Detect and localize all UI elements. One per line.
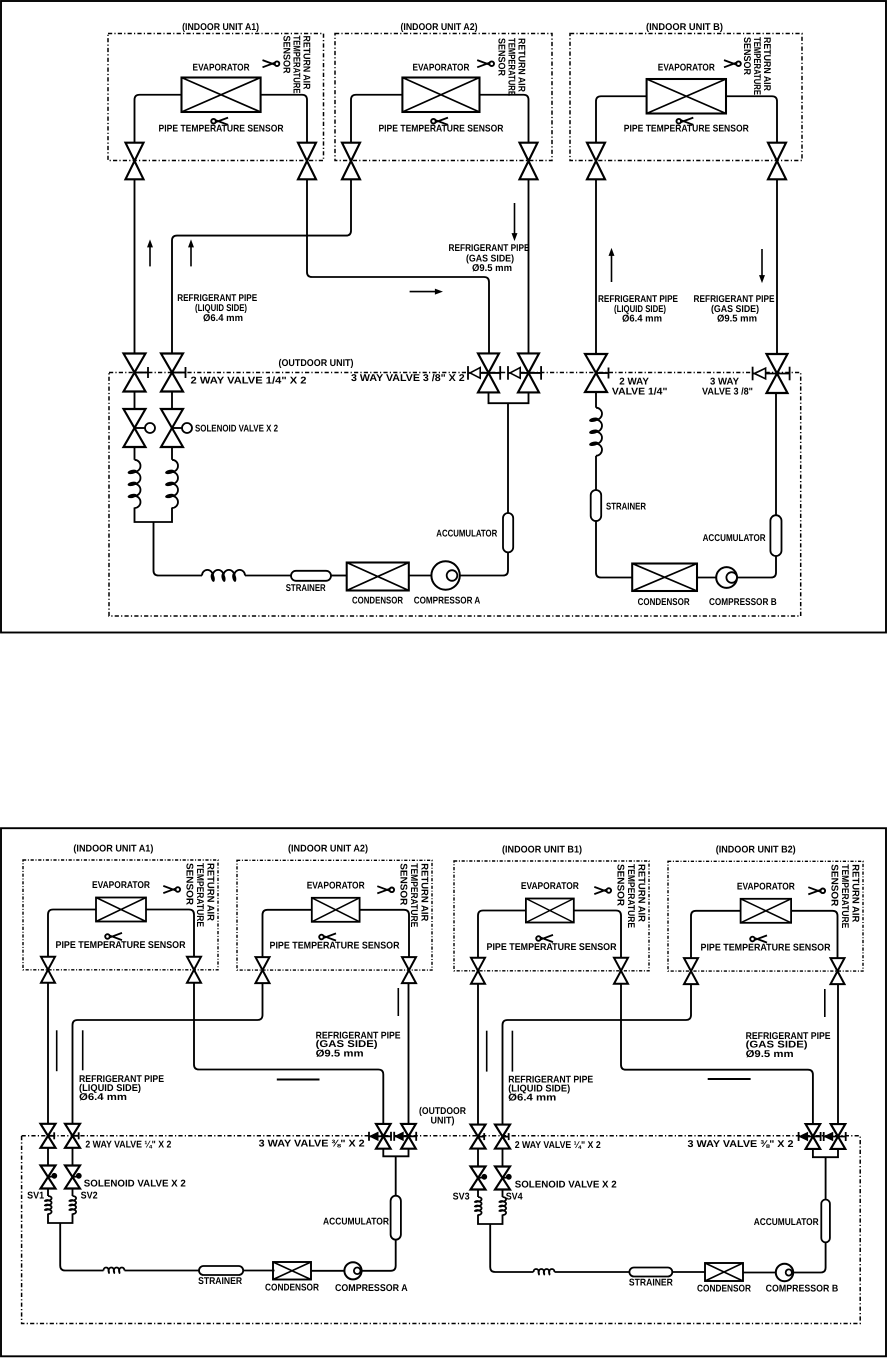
svg-text:SOLENOID VALVE X 2: SOLENOID VALVE X 2 (84, 1179, 187, 1190)
svg-text:REFRIGERANT PIPE: REFRIGERANT PIPE (449, 243, 530, 254)
compressor B (top) (716, 567, 737, 588)
solenoid valve SV4 (495, 1167, 511, 1190)
indoor valve B2 gas (831, 958, 845, 984)
condenser A (top) (347, 563, 409, 591)
svg-text:COMPRESSOR B: COMPRESSOR B (709, 597, 777, 608)
expansion coil SV2 (bottom) (68, 1196, 76, 1214)
solenoid valve SV2 (65, 1166, 81, 1189)
evaporator A1 (182, 78, 261, 113)
label refrigerant pipe liquid B (598, 294, 678, 325)
coil merge pipe B (bottom) (478, 1215, 534, 1273)
svg-text:STRAINER: STRAINER (198, 1276, 242, 1287)
indoor valve B1 gas (614, 958, 628, 984)
svg-text:EVAPORATOR: EVAPORATOR (658, 63, 715, 74)
indoor valve A2 gas (520, 143, 538, 180)
2-way valve SV line 4 (bottom B) (495, 1125, 510, 1149)
svg-text:CONDENSOR: CONDENSOR (638, 597, 690, 608)
label condenser A (bottom) (265, 1283, 319, 1294)
svg-text:SENSOR: SENSOR (183, 863, 194, 905)
condenser B (top) (632, 564, 697, 592)
liquid pipe A1 to valve (135, 95, 182, 143)
wire B1 liquid down (bottom) (477, 984, 479, 1125)
main inductor B (bottom) (534, 1269, 555, 1276)
label condenser A (top) (352, 596, 403, 607)
return air temperature sensor B2 (808, 864, 860, 928)
indoor unit A1 enclosure (23, 860, 218, 970)
indoor unit B2 enclosure (668, 861, 863, 971)
3-way valve A1 (bottom) (369, 1124, 391, 1149)
indoor unit B enclosure (570, 34, 802, 161)
svg-text:SOLENOID VALVE X 2: SOLENOID VALVE X 2 (515, 1180, 618, 1191)
3-way merge pipe A (bottom) (383, 1149, 408, 1157)
svg-text:TEMPERATURE: TEMPERATURE (625, 864, 636, 928)
svg-text:3 WAY VALVE ⅜" X 2: 3 WAY VALVE ⅜" X 2 (259, 1139, 366, 1150)
indoor valve B gas (768, 143, 786, 180)
label accumulator A (bottom) (323, 1217, 389, 1228)
outdoor unit enclosure (top) (109, 373, 801, 617)
svg-text:Ø9.5 mm: Ø9.5 mm (717, 314, 757, 325)
label compressor A (top) (414, 596, 481, 607)
liquid pipe B to valve (596, 96, 647, 142)
label solenoid valve (bottom A) (84, 1179, 187, 1190)
condenser A (bottom) (273, 1262, 311, 1280)
label SV3 (453, 1192, 470, 1203)
label accumulator B (top) (703, 533, 766, 544)
gas pipe A1 to valve (261, 95, 307, 143)
svg-text:SV3: SV3 (453, 1192, 470, 1203)
indoor valve B2 liquid (684, 958, 698, 984)
flow mark A gas down (bottom) (397, 988, 399, 1016)
label refrigerant pipe gas A (bottom) (316, 1031, 401, 1060)
gas pipe B2 to valve (791, 911, 837, 958)
evaporator A2 (312, 898, 360, 922)
svg-text:3 WAY VALVE ⅜" X 2: 3 WAY VALVE ⅜" X 2 (688, 1139, 795, 1150)
flow arrow A gas right (410, 289, 442, 294)
solenoid valve 1 (top) (124, 409, 156, 447)
return air temperature sensor A2 (377, 863, 429, 927)
wire compressor B to accumulator (737, 556, 776, 578)
3-way valve B (top) (753, 354, 790, 393)
pipe temperature sensor A1 (56, 933, 186, 951)
wire condenser to compressor A (bottom) (311, 1270, 344, 1272)
label refrigerant pipe liquid A (bottom) (79, 1074, 164, 1103)
svg-text:SV2: SV2 (81, 1191, 98, 1202)
liquid pipe A2 to valve (351, 95, 402, 143)
3-way valve B1 (bottom) (799, 1124, 821, 1149)
label accumulator B (bottom) (754, 1217, 819, 1228)
label refrigerant pipe liquid A (177, 293, 257, 324)
pipe temperature sensor B1 (487, 935, 617, 953)
label 3 way valve B (bottom) (688, 1139, 795, 1150)
wire inductor to strainer B (bottom) (555, 1271, 630, 1273)
label solenoid valve (bottom B) (515, 1180, 618, 1191)
return air temperature sensor B1 (594, 864, 646, 928)
svg-text:Ø9.5 mm: Ø9.5 mm (746, 1049, 794, 1060)
gas pipe A2 to valve (480, 95, 529, 143)
svg-text:SENSOR: SENSOR (741, 37, 752, 75)
svg-text:EVAPORATOR: EVAPORATOR (193, 63, 250, 74)
coil merge pipe A (bottom) (48, 1214, 104, 1271)
wire 2way to solenoid 2 (171, 392, 173, 410)
indoor unit B label (646, 22, 723, 33)
evaporator A1 label (193, 63, 250, 74)
compressor B (bottom) (776, 1264, 793, 1281)
svg-text:(INDOOR UNIT A2): (INDOOR UNIT A2) (288, 844, 368, 855)
label 2 way valve B (bottom) (515, 1140, 601, 1151)
svg-text:RETURN AIR: RETURN AIR (419, 863, 430, 921)
wire strainer B to condenser (596, 521, 632, 578)
svg-text:(INDOOR UNIT B1): (INDOOR UNIT B1) (502, 844, 582, 855)
svg-text:SENSOR: SENSOR (614, 864, 625, 906)
label SV4 (506, 1192, 523, 1203)
svg-text:SV1: SV1 (27, 1191, 44, 1202)
label refrigerant pipe gas B (694, 294, 775, 325)
3-way valve A2 (bottom) (394, 1124, 416, 1149)
svg-text:EVAPORATOR: EVAPORATOR (92, 880, 150, 891)
label 2 way valve B (top) (612, 377, 668, 398)
2-way valve SV line 1 (bottom A) (41, 1124, 56, 1148)
pipe temperature sensor B (624, 118, 749, 135)
label solenoid valve (top) (195, 423, 278, 434)
svg-text:SENSOR: SENSOR (281, 36, 292, 74)
indoor unit A2 enclosure (335, 34, 552, 161)
gas pipe A1 to valve (146, 910, 194, 957)
label condenser B (bottom) (697, 1284, 751, 1295)
label 2 way valve A (bottom) (85, 1139, 171, 1150)
evaporator B2 label (737, 881, 795, 892)
strainer B (bottom) (629, 1268, 672, 1277)
3-way merge pipe B (bottom) (813, 1149, 838, 1157)
label refrigerant pipe gas B (bottom) (746, 1031, 831, 1060)
svg-text:(INDOOR UNIT A1): (INDOOR UNIT A1) (182, 22, 259, 33)
outer frame (bottom diagram) (1, 828, 886, 1356)
indoor unit A1 label (182, 22, 259, 33)
wire strainer to condenser A (bottom) (243, 1270, 274, 1272)
svg-text:EVAPORATOR: EVAPORATOR (521, 881, 579, 892)
svg-text:EVAPORATOR: EVAPORATOR (737, 881, 795, 892)
wire A2 gas down (bottom) (408, 983, 410, 1124)
svg-text:Ø6.4 mm: Ø6.4 mm (203, 313, 243, 324)
flow arrow A gas down (512, 203, 517, 240)
2-way valve SV line 2 (bottom A) (65, 1124, 80, 1148)
wire A1 gas reroute (bottom) (194, 983, 383, 1125)
flow mark B liquid 1 (bottom) (486, 1031, 488, 1072)
2-way valve A2 (161, 354, 186, 392)
indoor unit A1 label (73, 843, 153, 854)
evaporator B (647, 79, 726, 114)
svg-text:ACCUMULATOR: ACCUMULATOR (703, 533, 766, 544)
svg-text:EVAPORATOR: EVAPORATOR (307, 880, 365, 891)
indoor valve A1 liquid (126, 143, 144, 180)
wire condenser to compressor A (409, 575, 432, 577)
return air temperature sensor A2 (477, 38, 526, 96)
svg-text:TEMPERATURE: TEMPERATURE (194, 863, 205, 927)
main inductor A (top) (202, 570, 245, 582)
wire solenoid2 to coil2 (171, 447, 173, 460)
label compressor B (bottom) (766, 1284, 839, 1295)
evaporator B label (658, 63, 715, 74)
wire strainer to condenser A (331, 575, 347, 577)
wire strainer to condenser B (bottom) (672, 1271, 705, 1273)
accumulator A (bottom) (391, 1196, 401, 1240)
flow arrow A liquid 2 (189, 241, 194, 267)
wire B2 liquid reroute (bottom) (503, 984, 692, 1125)
indoor valve A1 gas (187, 957, 201, 983)
flow mark A liquid 1 (bottom) (56, 1030, 58, 1071)
return air temperature sensor A1 (263, 36, 312, 94)
svg-text:3 WAY VALVE 3 /8" X 2: 3 WAY VALVE 3 /8" X 2 (351, 373, 465, 384)
wire compressor A to accumulator (bottom) (362, 1240, 396, 1271)
wire compressor B to accumulator (bottom) (793, 1242, 825, 1272)
wire 2way to solenoid 2 (bottom A) (72, 1148, 74, 1166)
svg-text:RETURN AIR: RETURN AIR (850, 864, 861, 922)
pipe temperature sensor A2 (378, 118, 503, 135)
flow mark A liquid 2 (bottom) (82, 1030, 84, 1070)
svg-text:SENSOR: SENSOR (397, 863, 408, 905)
liquid pipe A2 to valve (263, 910, 312, 957)
svg-text:Ø6.4 mm: Ø6.4 mm (79, 1092, 127, 1103)
wire solenoid SV1 to coil (47, 1189, 49, 1197)
wire accumulator A to 3way merge (bottom) (395, 1156, 397, 1195)
evaporator A2 (402, 78, 479, 113)
wire inductor to strainer A (bottom) (125, 1270, 200, 1272)
label 2 way valve A (191, 375, 308, 386)
wire solenoid1 to coil1 (134, 447, 136, 460)
svg-text:ACCUMULATOR: ACCUMULATOR (436, 529, 497, 540)
gas pipe B to valve (726, 96, 777, 142)
indoor unit B2 label (716, 845, 796, 856)
svg-text:UNIT): UNIT) (431, 1116, 455, 1127)
indoor unit A2 label (401, 22, 478, 33)
wire accumulator A to 3way merge (507, 403, 509, 513)
wire A1 liquid down (bottom) (47, 983, 49, 1124)
svg-text:SENSOR: SENSOR (496, 38, 507, 76)
svg-text:PIPE TEMPERATURE SENSOR: PIPE TEMPERATURE SENSOR (378, 124, 503, 135)
expansion coil 2 (top) (165, 460, 178, 508)
2-way valve A1 (124, 354, 149, 392)
svg-text:2 WAY VALVE 1/4" X 2: 2 WAY VALVE 1/4" X 2 (191, 375, 308, 386)
3-way valve B2 (bottom) (824, 1124, 846, 1149)
svg-text:STRAINER: STRAINER (606, 501, 646, 512)
compressor A (bottom) (344, 1262, 361, 1279)
liquid pipe B2 to valve (691, 911, 741, 958)
svg-text:CONDENSOR: CONDENSOR (697, 1284, 751, 1295)
indoor valve A2 liquid (342, 143, 360, 180)
svg-text:PIPE TEMPERATURE SENSOR: PIPE TEMPERATURE SENSOR (624, 124, 749, 135)
2-way valve SV line 3 (bottom B) (471, 1125, 486, 1149)
evaporator A1 (96, 898, 146, 922)
wire 2way B to coil (595, 392, 597, 408)
outdoor unit label (bottom) (419, 1106, 466, 1127)
3-way merge pipe A (489, 392, 529, 403)
svg-text:2 WAY VALVE ¼" X 2: 2 WAY VALVE ¼" X 2 (515, 1140, 601, 1151)
expansion coil SV3 (bottom) (474, 1197, 482, 1215)
svg-text:RETURN AIR: RETURN AIR (636, 864, 647, 922)
svg-text:SENSOR: SENSOR (828, 864, 839, 906)
indoor unit B1 enclosure (454, 861, 649, 971)
indoor valve A2 gas (402, 957, 416, 983)
wire 2way to solenoid 4 (bottom B) (502, 1149, 504, 1167)
label strainer A (top) (286, 583, 326, 594)
label SV1 (27, 1191, 44, 1202)
wire solenoid SV3 to coil (477, 1190, 479, 1198)
wire 2way to solenoid 3 (bottom B) (477, 1149, 479, 1167)
flow arrow B liquid up (609, 249, 614, 282)
svg-text:PIPE TEMPERATURE SENSOR: PIPE TEMPERATURE SENSOR (487, 942, 617, 953)
svg-text:PIPE TEMPERATURE SENSOR: PIPE TEMPERATURE SENSOR (701, 943, 831, 954)
2-way valve B (top) (585, 354, 609, 392)
wire B gas down (776, 179, 778, 354)
wire A2 liquid reroute (bottom) (73, 983, 263, 1124)
strainer A (top) (291, 571, 331, 581)
outdoor unit label (top) (279, 358, 354, 369)
solenoid valve SV3 (471, 1167, 487, 1190)
wire 2way to solenoid 1 (bottom A) (47, 1148, 49, 1166)
svg-text:COMPRESSOR B: COMPRESSOR B (766, 1284, 839, 1295)
svg-text:2 WAY VALVE ¼" X 2: 2 WAY VALVE ¼" X 2 (85, 1139, 171, 1150)
svg-text:VALVE 3 /8": VALVE 3 /8" (702, 387, 753, 398)
outer frame (top diagram) (1, 1, 886, 633)
indoor unit B1 label (502, 844, 582, 855)
wire coil B to strainer (595, 456, 597, 490)
svg-text:ACCUMULATOR: ACCUMULATOR (754, 1217, 819, 1228)
strainer B (top) (591, 490, 602, 521)
flow mark B gas right (bottom) (708, 1078, 751, 1080)
svg-text:PIPE TEMPERATURE SENSOR: PIPE TEMPERATURE SENSOR (270, 941, 400, 952)
3-way valve A2 (top) (508, 353, 541, 392)
flow mark B gas down (bottom) (824, 989, 826, 1017)
pipe temperature sensor A2 (270, 933, 400, 951)
label accumulator A (top) (436, 529, 497, 540)
indoor valve B liquid (587, 143, 605, 180)
evaporator B2 (741, 899, 792, 923)
wire solenoid SV4 to coil (502, 1190, 504, 1198)
liquid pipe B1 to valve (478, 911, 526, 958)
wire condenser to compressor B (697, 577, 716, 579)
wire accumulator B to 3way merge (bottom) (825, 1157, 827, 1199)
flow arrow A liquid 1 (148, 241, 153, 267)
svg-text:(INDOOR UNIT A2): (INDOOR UNIT A2) (401, 22, 478, 33)
accumulator A (top) (503, 513, 513, 552)
indoor valve A1 liquid (41, 957, 55, 983)
return air temperature sensor A1 (163, 863, 215, 927)
coil merge pipe A (135, 508, 203, 576)
pipe temperature sensor A1 (159, 118, 284, 135)
wire B2 gas down (bottom) (837, 984, 839, 1125)
expansion coil 1 (top) (127, 460, 140, 508)
svg-text:TEMPERATURE: TEMPERATURE (839, 864, 850, 928)
evaporator B1 (526, 899, 574, 923)
svg-text:Ø9.5 mm: Ø9.5 mm (316, 1049, 364, 1060)
label compressor B (top) (709, 597, 777, 608)
label 3 way valve A (top) (351, 373, 465, 384)
svg-text:CONDENSOR: CONDENSOR (352, 596, 403, 607)
evaporator A2 label (307, 880, 365, 891)
expansion coil B (top) (589, 408, 602, 456)
label 3 way valve A (bottom) (259, 1139, 366, 1150)
wire compressor A to accumulator (460, 552, 508, 575)
flow mark B liquid 2 (bottom) (511, 1031, 513, 1072)
wire solenoid SV2 to coil (72, 1189, 74, 1197)
svg-text:COMPRESSOR A: COMPRESSOR A (335, 1283, 408, 1294)
wire condenser to compressor B (bottom) (743, 1272, 776, 1274)
evaporator B1 label (521, 881, 579, 892)
indoor unit A2 enclosure (237, 860, 432, 970)
evaporator A1 label (92, 880, 150, 891)
outdoor unit enclosure (bottom) (22, 1136, 861, 1324)
return air temperature sensor B (724, 37, 772, 95)
wire accumulator B to 3way (775, 393, 777, 516)
main inductor A (bottom) (104, 1268, 125, 1275)
liquid pipe A1 to valve (48, 910, 96, 957)
svg-text:(INDOOR UNIT A1): (INDOOR UNIT A1) (73, 843, 153, 854)
svg-text:(INDOOR UNIT B2): (INDOOR UNIT B2) (716, 845, 796, 856)
evaporator A2 label (412, 63, 469, 74)
svg-text:SOLENOID VALVE X 2: SOLENOID VALVE X 2 (195, 423, 278, 434)
svg-text:SV4: SV4 (506, 1192, 523, 1203)
label 3 way valve B (top) (702, 377, 753, 398)
svg-text:RETURN AIR: RETURN AIR (205, 863, 216, 921)
gas pipe A2 to valve (360, 910, 409, 957)
svg-text:CONDENSOR: CONDENSOR (265, 1283, 319, 1294)
expansion coil SV4 (bottom) (498, 1197, 506, 1215)
wire A2 gas down (528, 179, 530, 353)
wire B liquid down (595, 179, 597, 354)
indoor valve A1 gas (298, 143, 316, 180)
svg-text:EVAPORATOR: EVAPORATOR (412, 63, 469, 74)
svg-text:Ø6.4 mm: Ø6.4 mm (508, 1093, 556, 1104)
label strainer B (top) (606, 501, 646, 512)
indoor valve A2 liquid (256, 957, 270, 983)
label SV2 (81, 1191, 98, 1202)
wire A1 liquid down (134, 179, 136, 353)
label refrigerant pipe gas A (449, 243, 530, 274)
svg-text:(OUTDOOR UNIT): (OUTDOOR UNIT) (279, 358, 354, 369)
wire B1 gas reroute (bottom) (621, 984, 813, 1125)
label compressor A (bottom) (335, 1283, 408, 1294)
wire inductor to strainer A (245, 575, 291, 577)
label condenser B (top) (638, 597, 690, 608)
expansion coil SV1 (bottom) (44, 1196, 52, 1214)
svg-text:PIPE TEMPERATURE SENSOR: PIPE TEMPERATURE SENSOR (159, 124, 284, 135)
indoor valve B1 liquid (471, 958, 485, 984)
accumulator B (top) (770, 515, 781, 556)
indoor unit A1 enclosure (108, 34, 324, 161)
svg-text:Ø6.4 mm: Ø6.4 mm (622, 314, 662, 325)
solenoid valve SV1 (41, 1166, 57, 1189)
accumulator B (bottom) (821, 1200, 830, 1243)
gas pipe B1 to valve (574, 911, 621, 958)
flow arrow B gas down (760, 249, 765, 282)
compressor A (top) (431, 561, 459, 589)
svg-text:VALVE 1/4": VALVE 1/4" (612, 387, 668, 398)
wire 2way to solenoid 1 (134, 392, 136, 410)
strainer A (bottom) (199, 1266, 243, 1275)
solenoid valve 2 (top) (161, 409, 192, 447)
3-way valve A1 (top) (468, 353, 500, 392)
svg-text:ACCUMULATOR: ACCUMULATOR (323, 1217, 389, 1228)
pipe temperature sensor B2 (701, 935, 831, 953)
svg-text:STRAINER: STRAINER (629, 1278, 673, 1289)
svg-text:COMPRESSOR A: COMPRESSOR A (414, 596, 481, 607)
svg-text:PIPE TEMPERATURE SENSOR: PIPE TEMPERATURE SENSOR (56, 940, 186, 951)
label strainer A (bottom) (198, 1276, 242, 1287)
condenser B (bottom) (705, 1263, 743, 1281)
svg-text:(INDOOR UNIT B): (INDOOR UNIT B) (646, 22, 723, 33)
flow mark A gas right (bottom) (277, 1079, 320, 1081)
wire A1 gas reroute (307, 179, 489, 353)
svg-text:STRAINER: STRAINER (286, 583, 326, 594)
